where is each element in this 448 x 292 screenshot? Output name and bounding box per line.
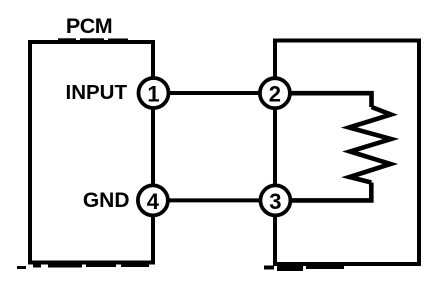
svg-text:3: 3 — [269, 189, 281, 214]
wire GND net: node 4 to node 3 — [153, 198, 275, 202]
scan artifact dashes above left box top edge — [58, 38, 128, 40]
svg-text:2: 2 — [269, 82, 281, 107]
wire: node 2 to resistor top lead — [275, 93, 372, 107]
svg-text:INPUT: INPUT — [66, 81, 128, 104]
scan artifact dashes under right box — [264, 265, 344, 271]
PCM box (left rectangle) — [30, 42, 153, 263]
svg-text:1: 1 — [147, 82, 159, 107]
wire INPUT net: node 1 to node 2 — [153, 91, 275, 95]
sensor box (right rectangle) — [275, 41, 419, 265]
node 4 terminal circle — [138, 185, 168, 215]
svg-text:GND: GND — [83, 189, 130, 212]
scan artifact dashes under left box — [17, 264, 149, 270]
node 1 terminal circle — [139, 78, 169, 108]
resistor R1 — [349, 107, 391, 183]
node 3 terminal circle — [260, 185, 290, 215]
wire: resistor bottom lead to node 3 — [275, 183, 371, 201]
svg-text:PCM: PCM — [66, 14, 112, 38]
node 2 terminal circle — [260, 78, 290, 108]
svg-text:4: 4 — [147, 189, 160, 214]
